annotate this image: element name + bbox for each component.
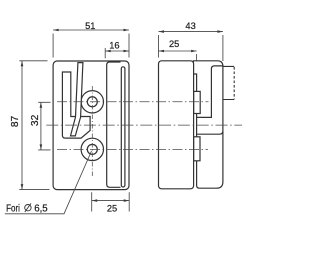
dimension texts	[6, 21, 196, 214]
dim 16 line	[105, 50, 129, 52]
arrows dim 25 top	[159, 50, 165, 53]
keeper hidden outline (dashed)	[223, 66, 234, 99]
arrows dim 32	[40, 102, 43, 108]
lower boss outer circle	[81, 138, 103, 160]
svg-text:25: 25	[107, 204, 117, 214]
svg-text:25: 25	[169, 39, 179, 49]
dim 25 top extension line	[196, 54, 198, 62]
lower hole centerline	[57, 148, 208, 150]
arrows dim 25 bottom	[92, 199, 98, 202]
svg-text:43: 43	[185, 21, 195, 31]
dim 16 extension line	[104, 48, 106, 58]
svg-text:16: 16	[109, 41, 119, 51]
upper tab (side view)	[194, 91, 201, 113]
dim 43 line	[159, 31, 223, 33]
upper hole	[87, 97, 97, 107]
svg-text:32: 32	[30, 114, 41, 126]
dim 25 bottom extension lines	[92, 192, 130, 211]
dim 87 extension lines	[19, 61, 49, 190]
lever arm	[71, 63, 83, 136]
arrows dim 16	[105, 50, 111, 53]
diameter symbol	[25, 203, 31, 212]
svg-text:Fori: Fori	[6, 203, 20, 214]
svg-text:6,5: 6,5	[34, 203, 48, 214]
dim 51 line	[53, 29, 129, 31]
upper boss outer circle	[81, 91, 103, 113]
side view main body	[159, 61, 194, 189]
right slot	[121, 67, 125, 187]
lower tab (side view)	[194, 137, 200, 161]
arrows dim 43	[159, 30, 165, 33]
dim 87 line	[21, 61, 23, 190]
leader line to hole	[5, 151, 92, 214]
lower hole	[87, 144, 97, 154]
arrows dim 51	[53, 29, 59, 32]
svg-text:87: 87	[10, 116, 21, 128]
dim 25 top line	[159, 50, 197, 52]
keyhole pocket cutout	[62, 72, 90, 138]
upper hole centerline	[57, 101, 209, 103]
middle centerline	[46, 124, 242, 126]
front view body plate	[53, 61, 129, 190]
dim 43 extension lines	[159, 35, 223, 61]
dim 25 bottom line	[92, 200, 130, 202]
arrowheads	[21, 29, 223, 202]
vertical hole centerline	[91, 86, 93, 177]
dim 51 extension lines	[53, 34, 129, 58]
inner plate edge line	[107, 62, 121, 187]
back plate (side view, right)	[193, 61, 223, 188]
svg-text:51: 51	[85, 21, 95, 31]
arrows dim 87	[21, 61, 24, 67]
dim 32 extension lines	[38, 102, 50, 150]
dim 32 line	[40, 102, 42, 150]
flange plate (side view)	[197, 66, 223, 134]
